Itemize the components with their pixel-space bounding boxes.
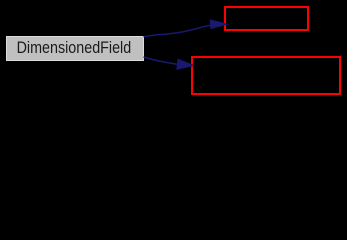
wire: edge to top node xyxy=(144,25,212,37)
arrowhead to top node xyxy=(210,20,227,29)
node top-right (red, truncated) xyxy=(225,7,308,30)
arrowhead to bottom node xyxy=(177,59,194,69)
svg-text:DimensionedField: DimensionedField xyxy=(17,39,132,57)
wire: edge to bottom node xyxy=(144,57,178,64)
node bottom-right (red, truncated) xyxy=(192,57,340,94)
node DimensionedField (current class, gray box) xyxy=(7,37,144,61)
